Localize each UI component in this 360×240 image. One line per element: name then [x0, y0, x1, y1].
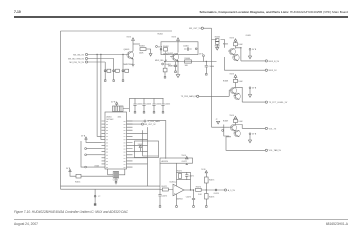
- resistor R0474: [196, 187, 203, 197]
- svg-text:U0461-2: U0461-2: [170, 181, 177, 183]
- svg-text:TX_PCT_LEVEL_5V: TX_PCT_LEVEL_5V: [269, 102, 288, 104]
- ground (R0476): [206, 206, 208, 208]
- capacitor C0472 stub: [186, 163, 188, 164]
- wire IC bus to DAC box: [148, 121, 166, 159]
- svg-text:R0469: R0469: [223, 120, 228, 122]
- resistor R0467: [215, 42, 220, 48]
- power 5V B (IC top): [111, 102, 118, 106]
- wire R0468 to pair: [235, 83, 237, 88]
- component Y0451 (below IC): [108, 169, 125, 184]
- wire stage3 left input: [212, 126, 230, 128]
- svg-text:MX_IN3_TK_5V: MX_IN3_TK_5V: [70, 62, 85, 64]
- transistor Q0465: [229, 87, 237, 96]
- connector TX_RX3_GAIN_IN: [181, 95, 199, 98]
- svg-text:August 24, 2007: August 24, 2007: [14, 222, 38, 226]
- svg-text:C?: C?: [98, 196, 100, 198]
- schematic frame top: [61, 30, 173, 32]
- wire stage3 output 2: [226, 137, 265, 151]
- svg-text:MC74HC: MC74HC: [107, 119, 115, 121]
- svg-text:R0471: R0471: [177, 170, 182, 172]
- power 5V B (Q0461): [127, 37, 135, 52]
- svg-text:5V B: 5V B: [230, 115, 235, 117]
- resistor network U0452 (hatched): [113, 106, 124, 111]
- resistor R0462: [163, 46, 169, 56]
- wire input 1: [88, 54, 125, 56]
- resistor R0470: [162, 62, 167, 79]
- transistor Q0467: [229, 125, 237, 132]
- wire TX_RX3_GAIN_IN to stage2: [199, 95, 229, 97]
- svg-text:C0453: C0453: [146, 104, 151, 106]
- connector VOL_TX_5V: [265, 127, 277, 130]
- wire op-amp + input: [176, 194, 178, 206]
- svg-text:C0471: C0471: [189, 176, 194, 178]
- capacitor C0454: [152, 98, 161, 113]
- svg-text:5V B: 5V B: [172, 37, 177, 39]
- resistor R0472 (op-amp input): [160, 186, 173, 191]
- wire stage3 feed: [222, 125, 229, 137]
- resistor R0455: [75, 174, 81, 183]
- svg-text:C0465: C0465: [246, 35, 251, 37]
- header rule: [14, 16, 348, 18]
- junction dot R0475: [206, 189, 207, 190]
- svg-text:A_9_5V: A_9_5V: [228, 189, 236, 192]
- svg-text:Q0461: Q0461: [124, 49, 131, 51]
- ground J (stage3 left): [216, 119, 220, 124]
- connector A_9_5V: [224, 189, 235, 192]
- node MX_OUT_5V: [189, 27, 211, 30]
- connector MX_IN3_TK_5V: [70, 61, 88, 64]
- svg-text:C0461: C0461: [183, 46, 189, 48]
- ground (below IC): [94, 189, 96, 203]
- svg-text:5V B: 5V B: [111, 102, 116, 104]
- ground (op-amp +): [176, 206, 178, 208]
- wire input 2: [88, 58, 114, 60]
- schematic frame left: [60, 31, 62, 189]
- power 5V B (stage3): [230, 115, 237, 119]
- svg-text:MX_IN1_5V: MX_IN1_5V: [73, 54, 84, 56]
- svg-text:R0466: R0466: [223, 43, 228, 45]
- op-amp U0461-2: [170, 181, 185, 200]
- svg-text:100K: 100K: [139, 52, 144, 54]
- wire stage1 output 1: [241, 60, 265, 62]
- power 5V B (IC left): [81, 136, 102, 143]
- junction dot DAC out: [190, 189, 191, 190]
- pin 5V (stage3): [248, 133, 256, 143]
- capacitor C0461: [183, 46, 192, 51]
- svg-text:R0464: R0464: [185, 58, 191, 60]
- svg-text:5V B: 5V B: [201, 169, 206, 171]
- svg-text:C0455: C0455: [165, 104, 170, 106]
- resistor R0453: [122, 55, 129, 82]
- junction dot stage1: [240, 47, 241, 48]
- connector MX_IN1_5V: [73, 53, 87, 56]
- capacitor C0455: [161, 98, 170, 113]
- svg-text:TX_RX3_GAIN_IN: TX_RX3_GAIN_IN: [181, 95, 197, 98]
- wire stage2 collector rail: [236, 87, 243, 102]
- connector TX_PWR_LEVEL_5V: [265, 101, 288, 104]
- svg-text:MX_OUT_5V: MX_OUT_5V: [189, 28, 202, 30]
- schematic frame bottom: [61, 186, 161, 189]
- wire DAC box to feedback: [176, 163, 178, 172]
- wire bus A to IC pin: [97, 55, 101, 137]
- transistor Q0462: [167, 53, 179, 68]
- DAC U0471 AD5320 box: [160, 158, 193, 163]
- svg-text:VOL_TX: VOL_TX: [269, 128, 277, 130]
- svg-text:MX_OUT_5V: MX_OUT_5V: [144, 124, 156, 126]
- capacitor C0463: [165, 62, 177, 73]
- svg-text:MUX_B_5V: MUX_B_5V: [269, 61, 280, 63]
- DAC section top wire 5V B: [182, 155, 189, 159]
- junction dot MUX_SEL: [177, 61, 178, 62]
- resistor R0465: [215, 37, 220, 42]
- capacitor C0464: [205, 62, 214, 76]
- wire input 3: [88, 61, 106, 63]
- IC U0451 MUX: [102, 112, 148, 169]
- resistor R0471: [177, 170, 182, 178]
- resistor R0466: [223, 43, 243, 47]
- svg-text:R0455: R0455: [75, 182, 80, 184]
- wire Q0462 emitter to gnd: [177, 62, 179, 75]
- connector MX_IN2_TRB_5V: [68, 57, 88, 60]
- ground (Q0462 emitter): [176, 75, 180, 78]
- pin 5V (stage2): [248, 87, 256, 97]
- power 5V B (bottom left): [66, 168, 76, 176]
- wire Q0461 collector branch: [133, 43, 140, 45]
- wire R0469 to pair: [235, 123, 237, 125]
- svg-text:C0474: C0474: [214, 193, 219, 195]
- transistor Q0464: [233, 54, 240, 61]
- svg-text:4051: 4051: [118, 117, 122, 119]
- connector MUX_B_5V: [265, 60, 279, 63]
- capacitor C0474: [214, 189, 219, 195]
- svg-text:R0472: R0472: [162, 186, 167, 188]
- wire left net: [81, 141, 85, 167]
- junction dot C0464: [206, 61, 207, 62]
- svg-text:C0473: C0473: [186, 196, 191, 198]
- wire stage3 output 1: [242, 127, 265, 129]
- resistor R0464: [185, 58, 192, 67]
- connector MUX_5V: [265, 69, 277, 72]
- wire stage1 output 2: [225, 57, 266, 70]
- ground (stage1 left): [216, 44, 219, 50]
- wire IC inner net: [143, 130, 159, 156]
- svg-text:7-10: 7-10: [14, 10, 21, 14]
- wire Q0461 emitter to gnd: [132, 59, 134, 65]
- resistor R0476: [205, 190, 215, 206]
- capacitor C0471: [185, 172, 194, 179]
- resistor R0469: [223, 119, 243, 123]
- capacitor C0453: [142, 98, 151, 113]
- svg-text:R0468: R0468: [223, 80, 228, 82]
- pin 5V (stage1): [248, 48, 256, 58]
- svg-text:6816523H01-A: 6816523H01-A: [326, 222, 349, 226]
- svg-text:5V B: 5V B: [230, 74, 235, 76]
- ground arrow (R0463): [149, 54, 152, 57]
- svg-text:R0465: R0465: [215, 37, 220, 39]
- wire IC left pin A: [85, 148, 102, 150]
- svg-text:MX_IN2_TRB_5V: MX_IN2_TRB_5V: [68, 58, 85, 60]
- power 5V B (Q0462): [172, 37, 180, 53]
- capacitor C0452: [133, 98, 142, 113]
- pin 5V (near C0464): [199, 54, 204, 62]
- svg-text:Figure 7-10. HUD4022B/HUE4043: Figure 7-10. HUD4022B/HUE4043A Controlle…: [14, 210, 129, 214]
- capacitor C0475: [158, 193, 167, 207]
- svg-text:5V B: 5V B: [230, 37, 235, 39]
- wire MUX_SEL_5V: [155, 60, 217, 62]
- wire feedback: [177, 172, 191, 190]
- ground (Q0461 emitter): [131, 65, 134, 67]
- wire R0462 to MUX_SEL: [165, 51, 167, 62]
- svg-text:R0476: R0476: [209, 197, 214, 199]
- wire stage1 left input: [212, 40, 225, 48]
- group box (Q0462 network): [161, 42, 198, 55]
- resistor R0451: [104, 62, 111, 81]
- svg-text:R0475: R0475: [209, 179, 214, 181]
- wire IC right bus: [147, 127, 149, 186]
- resistor R0468: [223, 79, 243, 83]
- svg-text:C0475: C0475: [162, 195, 167, 197]
- wire IC left pin B: [85, 154, 102, 156]
- wire MX_OUT out: [127, 123, 157, 126]
- wire R0455 to IC: [81, 175, 113, 177]
- junction dot R0470: [164, 61, 165, 62]
- svg-text:AD5320: AD5320: [162, 160, 169, 163]
- group box (mid, 5V feed): [135, 141, 159, 158]
- footer rule: [14, 219, 348, 221]
- junction dots on input wires: [96, 54, 123, 55]
- pin 5V (near Q0461): [156, 46, 163, 49]
- transistor Q0461: [124, 49, 134, 66]
- transistor Q0463: [228, 48, 236, 55]
- svg-text:C0454: C0454: [156, 104, 161, 106]
- svg-text:I_MUX: I_MUX: [93, 165, 100, 167]
- power 5V B (DAC pullup): [201, 169, 207, 177]
- wire stage1 collector rail: [236, 48, 241, 61]
- wire R0466 to pair: [235, 46, 237, 49]
- wire DAC left bus: [159, 163, 161, 193]
- power 5V B (stage1): [230, 37, 237, 42]
- wire op-amp output: [184, 189, 193, 191]
- svg-text:R0462: R0462: [158, 34, 163, 36]
- wire stage3 collector rail: [236, 125, 243, 129]
- connector VOL_TAB_5V: [265, 149, 281, 152]
- svg-text:Schematics, Component Location: Schematics, Component Location Diagrams,…: [199, 10, 348, 14]
- resistor R0475: [205, 177, 215, 190]
- wire TX_RX3_GAIN out: [127, 120, 161, 123]
- transistor Q0466: [234, 93, 241, 100]
- resistor R0463: [139, 46, 146, 55]
- capacitor C0473: [186, 190, 195, 207]
- svg-text:MUX_5V: MUX_5V: [269, 70, 278, 72]
- wire stage bus vertical: [211, 28, 213, 127]
- power 5V B (stage2): [230, 74, 237, 80]
- wire DAC output: [201, 189, 224, 191]
- svg-text:C0452: C0452: [137, 104, 142, 106]
- wire bus B to IC pin: [100, 55, 103, 140]
- svg-text:VOL_TAB_5V: VOL_TAB_5V: [269, 149, 282, 152]
- pin (group box right): [195, 48, 197, 50]
- svg-text:LM2904: LM2904: [176, 199, 183, 201]
- svg-text:J?: J?: [216, 119, 218, 121]
- svg-text:5V B: 5V B: [182, 155, 187, 157]
- wire IC left pin C: [85, 165, 102, 168]
- transistor Q0468: [234, 130, 241, 137]
- wire cap rail: [123, 98, 164, 112]
- svg-text:C0472: C0472: [182, 161, 187, 163]
- wire R0463 to gnd arrow: [146, 49, 151, 54]
- svg-text:C0463: C0463: [165, 64, 171, 66]
- svg-text:5V B: 5V B: [127, 37, 132, 39]
- resistor R0452: [113, 59, 120, 82]
- wire stage2 output: [242, 101, 265, 103]
